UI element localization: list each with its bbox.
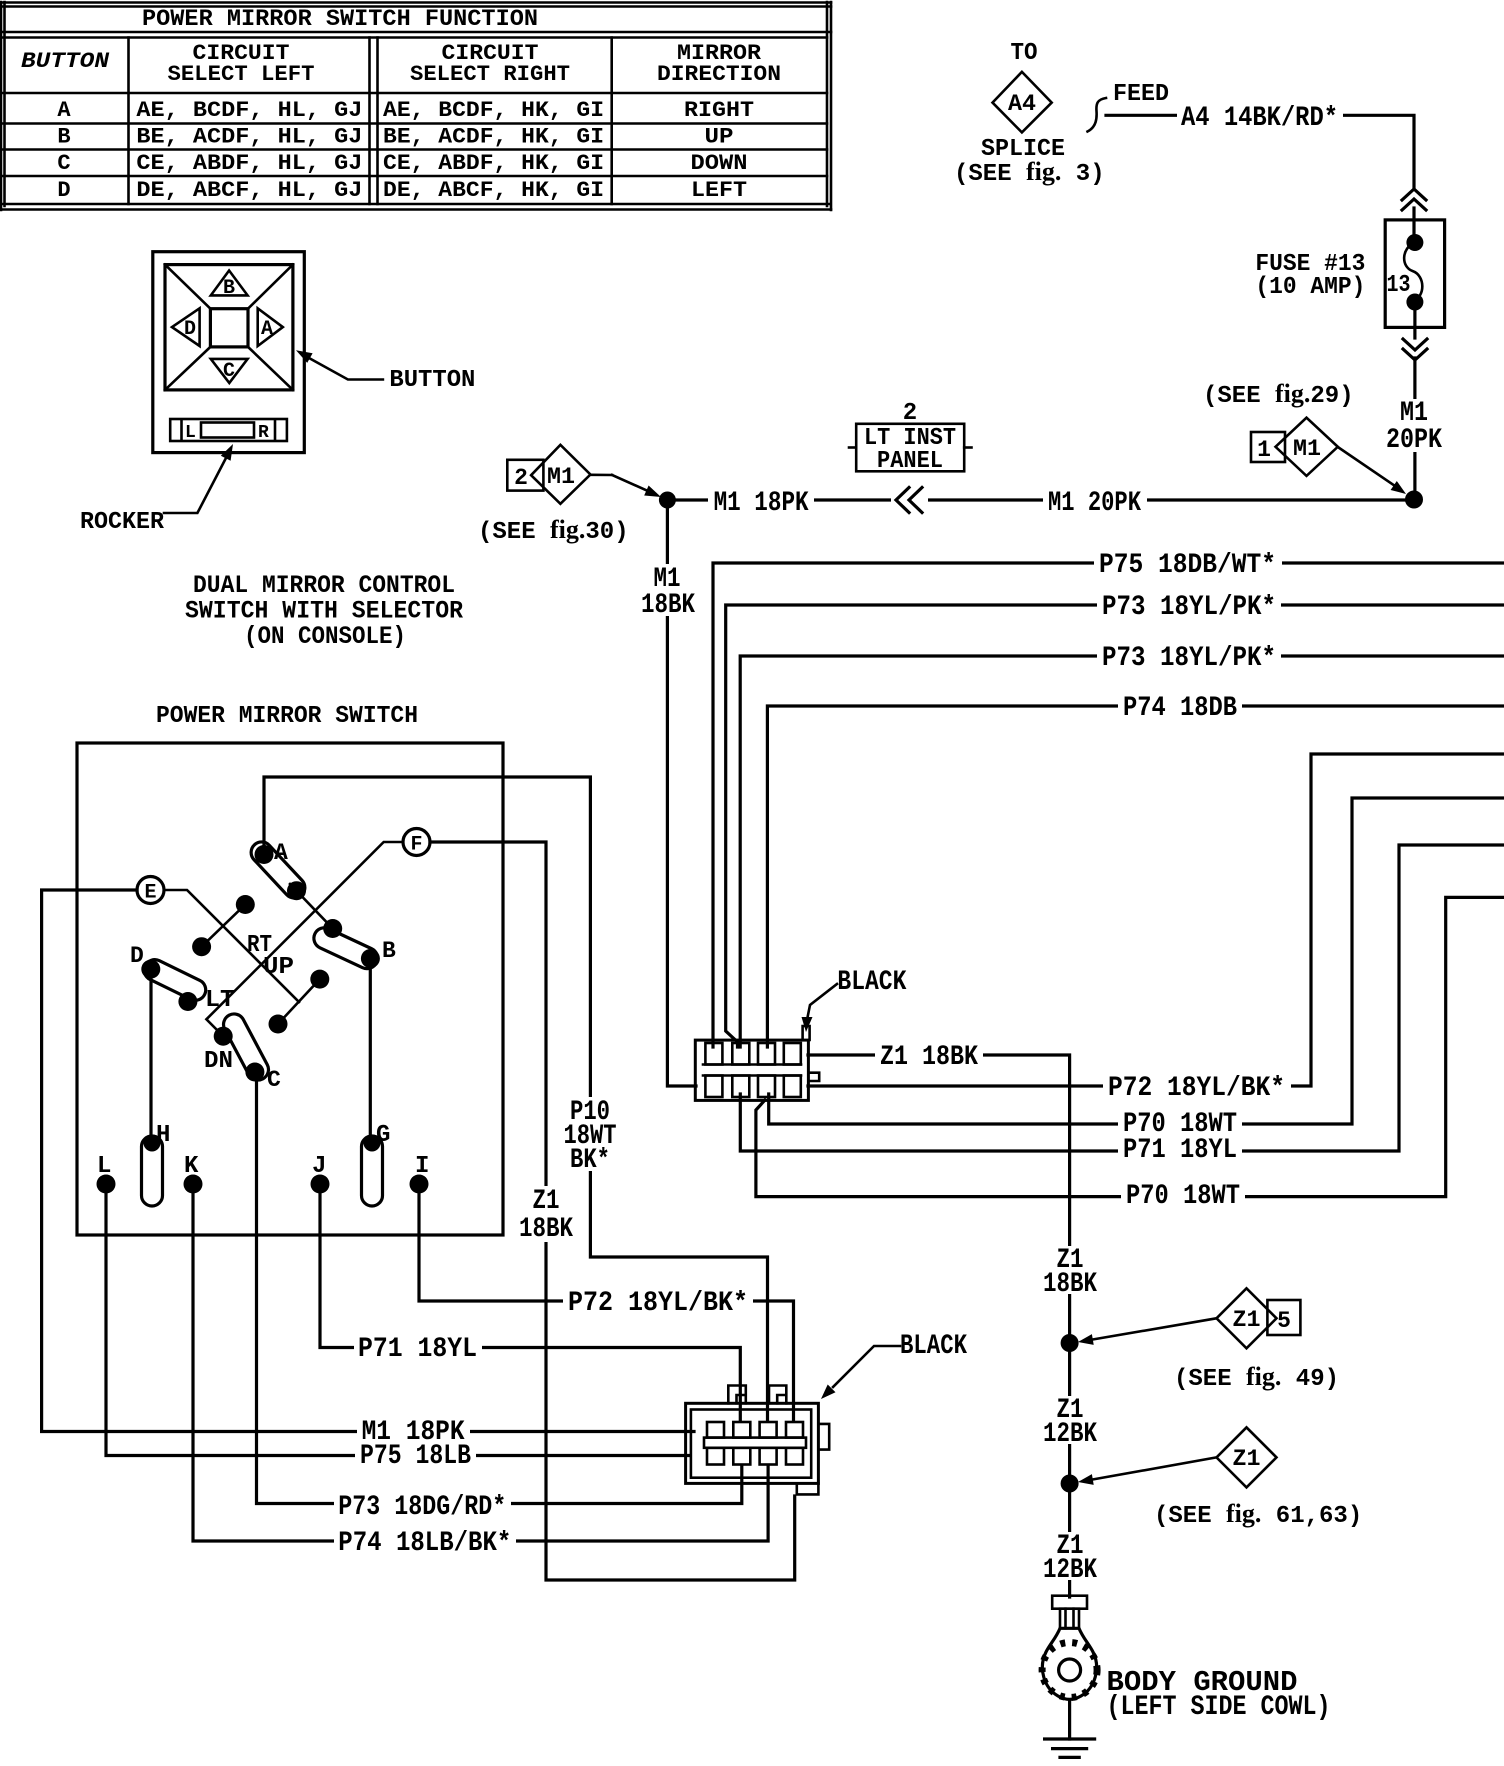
svg-text:AE, BCDF, HK, GI: AE, BCDF, HK, GI	[383, 98, 604, 123]
label Z1 12BK lower	[1042, 1531, 1098, 1586]
wire P72 18YL/BK* right loop	[808, 754, 1504, 1086]
svg-text:13: 13	[1387, 272, 1411, 299]
svg-text:12BK: 12BK	[1043, 1419, 1097, 1450]
button triangle C (down)	[211, 359, 248, 383]
wire B to G	[369, 964, 372, 1137]
selector pill G	[362, 1122, 391, 1206]
lower connector BLACK shell	[686, 1386, 830, 1495]
svg-text:BLACK: BLACK	[900, 1331, 967, 1362]
svg-text:F: F	[410, 834, 422, 857]
wire F to Z1 18BK ground loop	[430, 842, 795, 1580]
switch contact dots	[141, 845, 380, 1082]
label M1 18PK on wire	[708, 487, 814, 519]
svg-text:P74 18LB/BK*: P74 18LB/BK*	[338, 1528, 511, 1559]
svg-text:POWER MIRROR SWITCH FUNCTION: POWER MIRROR SWITCH FUNCTION	[142, 6, 538, 32]
svg-text:P71 18YL: P71 18YL	[358, 1334, 477, 1365]
selector pill H	[142, 1122, 171, 1206]
main wire M1 18PK / M1 20PK horizontal	[667, 498, 1414, 501]
svg-text:5: 5	[1277, 1308, 1291, 1334]
svg-text:DE, ABCF, HL, GJ: DE, ABCF, HL, GJ	[136, 178, 362, 203]
wire P75 18DB/WT* (corner to right edge and down to connector)	[713, 563, 1504, 1047]
wire E to M1 18PK into lower connector	[42, 890, 694, 1432]
label P71 18YL right	[1118, 1135, 1242, 1166]
upper connector BLACK label and leader	[802, 967, 907, 1032]
svg-text:18BK: 18BK	[641, 590, 695, 621]
svg-text:C: C	[223, 360, 235, 383]
splice A4 flag	[954, 40, 1105, 188]
svg-text:BUTTON: BUTTON	[389, 367, 475, 394]
svg-text:(SEE fig. 61,63): (SEE fig. 61,63)	[1154, 1499, 1362, 1530]
table border outer	[1, 2, 831, 210]
wire P71 18YL right loop	[740, 845, 1504, 1151]
svg-text:AE, BCDF, HL, GJ: AE, BCDF, HL, GJ	[136, 98, 362, 123]
svg-text:20PK: 20PK	[1386, 425, 1442, 456]
svg-text:C: C	[267, 1067, 281, 1093]
contact segment UP	[278, 979, 320, 1024]
svg-text:G: G	[376, 1122, 390, 1149]
label Z1 18BK on F ground wire	[516, 1186, 576, 1245]
label P71 18YL left	[354, 1334, 482, 1365]
wire K to P74 18LB/BK*	[193, 1190, 768, 1541]
svg-text:D: D	[57, 178, 70, 203]
svg-text:P71 18YL: P71 18YL	[1123, 1135, 1237, 1166]
label P70 18WT upper	[1118, 1109, 1242, 1140]
wire P70 18WT right loop lower	[756, 897, 1504, 1196]
svg-text:TO: TO	[1011, 40, 1038, 67]
wire A to P10 18WT BK*	[264, 777, 768, 1420]
label M1 18BK stacked	[641, 564, 701, 621]
svg-text:P72 18YL/BK*: P72 18YL/BK*	[1108, 1073, 1285, 1104]
label Z1 18BK horizontal	[875, 1042, 983, 1073]
svg-text:SELECT RIGHT: SELECT RIGHT	[410, 62, 570, 87]
label P75 18LB	[355, 1441, 476, 1472]
svg-text:BUTTON: BUTTON	[21, 49, 110, 74]
splice flag Z1	[1078, 1427, 1277, 1487]
svg-text:(10 AMP): (10 AMP)	[1255, 274, 1365, 301]
fuse F13 element	[1387, 234, 1424, 311]
connector flag 2 M1	[507, 445, 661, 504]
svg-text:(SEE fig. 49): (SEE fig. 49)	[1174, 1362, 1339, 1393]
body ground lug terminal	[1042, 1596, 1097, 1700]
connector flag 1 M1	[1251, 418, 1406, 494]
lower connector BLACK label and leader	[821, 1331, 967, 1399]
svg-text:A: A	[57, 98, 71, 123]
fuse label FUSE #13 (10 AMP)	[1255, 251, 1365, 301]
button pad center square	[210, 309, 248, 347]
splice flag Z1 5	[1078, 1288, 1300, 1348]
upper connector pin comb	[703, 1043, 801, 1097]
wire P70 18WT right loop upper	[769, 798, 1504, 1124]
junction node Z1 lower	[1061, 1475, 1079, 1493]
wire M1 20PK vertical into junction	[1413, 358, 1416, 495]
table border main	[1, 2, 831, 206]
svg-text:P75 18LB: P75 18LB	[360, 1441, 471, 1472]
svg-text:L: L	[97, 1153, 111, 1180]
svg-text:R: R	[258, 423, 269, 443]
button triangle A (right)	[258, 308, 283, 346]
svg-text:(SEE fig.30): (SEE fig.30)	[478, 515, 629, 546]
label Z1 18BK above junction	[1042, 1245, 1098, 1300]
wire M1 18BK vertical from junction to upper connector	[667, 505, 696, 1086]
svg-text:BK*: BK*	[570, 1145, 610, 1176]
svg-text:ROCKER: ROCKER	[80, 509, 165, 536]
svg-text:Z1 18BK: Z1 18BK	[880, 1042, 978, 1073]
svg-text:P72 18YL/BK*: P72 18YL/BK*	[568, 1288, 748, 1319]
label P10 18WT BK* stacked	[558, 1097, 622, 1176]
upper connector BLACK shell	[695, 1026, 819, 1100]
svg-text:H: H	[156, 1122, 170, 1149]
wire P74 18DB	[767, 706, 1504, 1047]
svg-text:BLACK: BLACK	[837, 967, 906, 998]
svg-text:UP: UP	[263, 954, 294, 981]
svg-text:B: B	[223, 277, 235, 300]
svg-text:A4 14BK/RD*: A4 14BK/RD*	[1181, 103, 1338, 134]
svg-text:M1: M1	[1293, 436, 1321, 462]
svg-text:PANEL: PANEL	[877, 448, 943, 475]
label M1 20PK on wire	[1043, 487, 1147, 519]
svg-text:Z1: Z1	[1233, 1307, 1261, 1333]
wire J to P71 18YL	[320, 1190, 740, 1420]
svg-text:E: E	[144, 882, 156, 905]
svg-text:LEFT: LEFT	[691, 178, 747, 203]
contact capsule A	[247, 838, 309, 903]
svg-text:SELECT LEFT: SELECT LEFT	[168, 62, 315, 87]
svg-text:K: K	[184, 1153, 199, 1180]
label P74 18DB	[1118, 693, 1242, 724]
terminal F circle	[403, 829, 430, 857]
svg-text:P73 18YL/PK*: P73 18YL/PK*	[1102, 592, 1276, 623]
FEED label and brace	[1088, 81, 1170, 132]
svg-text:(SEE fig. 3): (SEE fig. 3)	[954, 157, 1105, 188]
junction node M1 left	[659, 492, 676, 509]
svg-text:P73 18YL/PK*: P73 18YL/PK*	[1102, 643, 1276, 674]
label P73 18DG/RD*	[334, 1492, 511, 1523]
label P75 18DB/WT*	[1094, 550, 1282, 581]
svg-text:1: 1	[1257, 437, 1271, 463]
svg-text:DOWN: DOWN	[691, 151, 748, 176]
wire C to P73 18DG/RD*	[257, 1078, 742, 1504]
svg-text:P75 18DB/WT*: P75 18DB/WT*	[1099, 550, 1276, 581]
svg-text:POWER MIRROR SWITCH: POWER MIRROR SWITCH	[156, 703, 418, 730]
label P72 18YL/BK* left	[563, 1288, 753, 1319]
svg-text:D: D	[130, 943, 144, 969]
svg-text:18BK: 18BK	[1043, 1269, 1097, 1300]
svg-text:2: 2	[514, 465, 528, 491]
svg-text:RIGHT: RIGHT	[684, 98, 754, 123]
LT INST PANEL box	[849, 400, 972, 475]
svg-text:18BK: 18BK	[519, 1214, 573, 1245]
svg-text:P70 18WT: P70 18WT	[1126, 1181, 1240, 1212]
ground symbol	[1045, 1739, 1095, 1757]
junction node Z1 upper	[1061, 1334, 1079, 1352]
svg-text:(LEFT SIDE COWL): (LEFT SIDE COWL)	[1107, 1692, 1331, 1723]
wire P73 18YL/PK* first	[726, 605, 1504, 1047]
label P74 18LB/BK*	[334, 1528, 516, 1559]
switch outer body	[153, 252, 304, 453]
svg-text:M1 20PK: M1 20PK	[1048, 488, 1141, 519]
fuse F13 box	[1385, 220, 1444, 328]
svg-text:Z1: Z1	[1233, 1446, 1261, 1472]
svg-text:CE, ABDF, HK, GI: CE, ABDF, HK, GI	[383, 151, 604, 176]
svg-text:(SEE fig.29): (SEE fig.29)	[1203, 379, 1354, 410]
button triangle B (up)	[211, 271, 248, 296]
junction node M1 right	[1405, 491, 1423, 509]
contact segment RT	[202, 905, 246, 947]
svg-text:BE, ACDF, HK, GI: BE, ACDF, HK, GI	[383, 125, 604, 150]
wire A4 14BK/RD*	[1106, 115, 1414, 188]
wire P73 18YL/PK* second	[740, 656, 1504, 1047]
svg-text:M1 18PK: M1 18PK	[714, 488, 809, 519]
wire L to P75 18LB	[106, 1190, 690, 1456]
dual mirror control switch pictorial	[80, 252, 475, 651]
E feed diagonal	[165, 890, 300, 1002]
button triangle D (left)	[172, 308, 200, 346]
function table: POWER MIRROR SWITCH FUNCTION	[1, 2, 831, 210]
power mirror switch box	[77, 743, 503, 1235]
svg-text:A: A	[261, 318, 273, 341]
BODY GROUND label	[1107, 1666, 1331, 1723]
label Z1 12BK upper	[1042, 1395, 1098, 1450]
label P73 18YL/PK* first	[1097, 592, 1281, 623]
svg-text:P74 18DB: P74 18DB	[1123, 693, 1237, 724]
svg-text:DN: DN	[204, 1048, 233, 1075]
button pad diagonals	[165, 265, 293, 390]
svg-text:A4: A4	[1008, 91, 1036, 117]
A-B link diagonal	[290, 884, 333, 929]
svg-text:I: I	[415, 1153, 429, 1180]
svg-text:12BK: 12BK	[1043, 1555, 1097, 1586]
button pad square	[165, 265, 293, 390]
contact capsule C	[220, 1010, 272, 1083]
wire D to H	[149, 975, 152, 1137]
svg-text:C: C	[57, 151, 70, 176]
svg-text:B: B	[57, 125, 70, 150]
label P70 18WT lower	[1121, 1181, 1245, 1212]
lower connector pin comb	[704, 1422, 806, 1465]
wire break chevrons below fuse	[1403, 310, 1427, 360]
svg-text:DE, ABCF, HK, GI: DE, ABCF, HK, GI	[383, 178, 604, 203]
svg-text:Z1: Z1	[533, 1186, 560, 1217]
terminal E circle	[137, 877, 164, 905]
svg-text:FEED: FEED	[1113, 81, 1169, 108]
svg-text:A: A	[274, 840, 288, 866]
svg-text:J: J	[312, 1153, 326, 1180]
label M1 18PK lower	[357, 1417, 470, 1448]
svg-text:D: D	[184, 318, 196, 341]
contact capsule D	[141, 956, 210, 1004]
wire I to P72 18YL/BK*	[419, 1190, 794, 1420]
svg-text:B: B	[382, 938, 396, 964]
wire Z1 18BK from upper connector to ground stack	[808, 1055, 1070, 1597]
contact capsule B	[310, 924, 381, 972]
svg-text:LT: LT	[205, 987, 235, 1014]
svg-text:CE, ABDF, HL, GJ: CE, ABDF, HL, GJ	[136, 151, 362, 176]
svg-text:BE, ACDF, HL, GJ: BE, ACDF, HL, GJ	[136, 125, 362, 150]
F feed diagonal	[206, 842, 403, 1036]
svg-text:DIRECTION: DIRECTION	[657, 62, 781, 87]
wire break chevrons above fuse	[1402, 189, 1426, 234]
label P73 18YL/PK* second	[1097, 643, 1281, 674]
wire to ground symbol	[1068, 1700, 1071, 1739]
svg-text:P73 18DG/RD*: P73 18DG/RD*	[338, 1492, 506, 1523]
svg-text:M1: M1	[547, 464, 575, 490]
inline connector chevrons <<	[891, 486, 928, 515]
svg-text:(ON CONSOLE): (ON CONSOLE)	[244, 622, 406, 651]
svg-text:UP: UP	[705, 125, 734, 150]
svg-text:L: L	[185, 423, 196, 443]
terminal dots L K J I	[97, 1175, 429, 1194]
label P72 18YL/BK* right	[1103, 1073, 1291, 1104]
rocker bar	[170, 419, 287, 441]
